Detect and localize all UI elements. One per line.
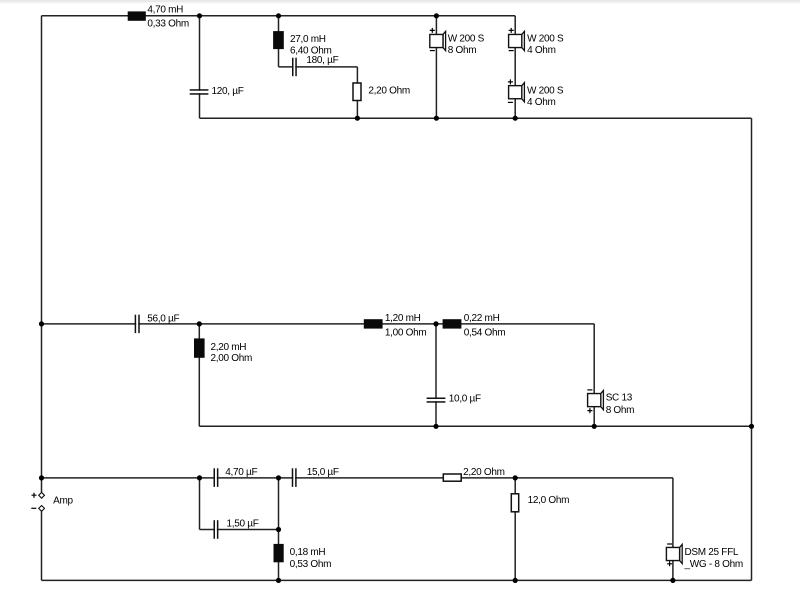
svg-text:Amp: Amp [53,496,73,507]
svg-text:1,20 mH: 1,20 mH [385,313,421,324]
svg-text:8 Ohm: 8 Ohm [448,45,477,56]
svg-text:2,20 mH: 2,20 mH [211,342,247,353]
svg-text:2,20 Ohm: 2,20 Ohm [368,86,410,97]
svg-text:2,20 Ohm: 2,20 Ohm [463,467,505,478]
svg-text:4,70 mH: 4,70 mH [147,5,183,16]
svg-text:180, µF: 180, µF [306,55,338,66]
svg-text:15,0 µF: 15,0 µF [307,467,339,478]
svg-text:0,22 mH: 0,22 mH [464,313,500,324]
svg-text:10,0 µF: 10,0 µF [449,393,481,404]
svg-text:8 Ohm: 8 Ohm [606,405,635,416]
svg-text:DSM 25 FFL: DSM 25 FFL [685,547,739,558]
svg-text:W 200 S: W 200 S [527,86,564,97]
svg-text:4 Ohm: 4 Ohm [527,97,556,108]
svg-text:W 200 S: W 200 S [527,34,564,45]
svg-text:1,50 µF: 1,50 µF [227,518,259,529]
svg-text:4,70 µF: 4,70 µF [225,467,257,478]
svg-text:W 200 S: W 200 S [448,34,485,45]
svg-text:0,54 Ohm: 0,54 Ohm [464,327,506,338]
svg-text:4 Ohm: 4 Ohm [527,45,556,56]
svg-text:0,33 Ohm: 0,33 Ohm [147,19,189,30]
svg-text:2,00 Ohm: 2,00 Ohm [211,353,253,364]
svg-text:1,00 Ohm: 1,00 Ohm [385,327,427,338]
svg-text:56,0 µF: 56,0 µF [147,313,179,324]
svg-text:0,53 Ohm: 0,53 Ohm [290,559,332,570]
svg-text:_WG - 8 Ohm: _WG - 8 Ohm [684,559,743,570]
svg-text:120, µF: 120, µF [212,86,244,97]
svg-text:12,0 Ohm: 12,0 Ohm [528,495,570,506]
svg-text:0,18 mH: 0,18 mH [290,547,326,558]
svg-text:SC 13: SC 13 [606,393,633,404]
svg-text:27,0 mH: 27,0 mH [290,34,326,45]
